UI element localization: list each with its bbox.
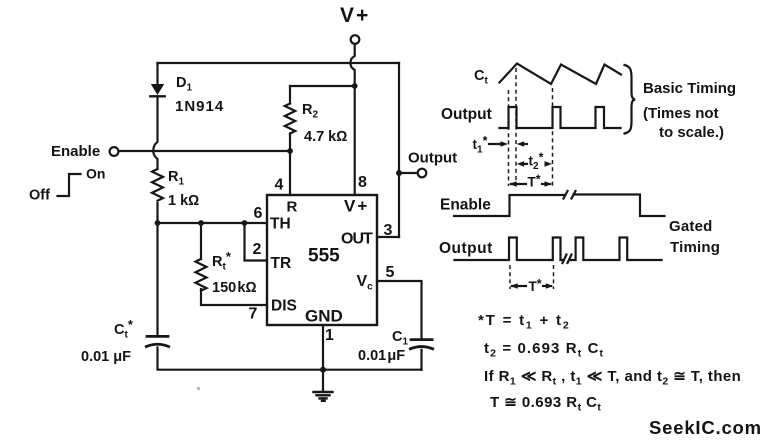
svg-text:555: 555 <box>308 246 340 267</box>
stray mark faint dot <box>197 387 200 390</box>
svg-text:Off: Off <box>29 188 50 204</box>
waveform enable break marks <box>564 191 568 199</box>
svg-text:TH: TH <box>270 216 291 233</box>
wire D1 upper lead <box>156 63 158 84</box>
svg-text:*T = t1 + t2: *T = t1 + t2 <box>478 312 570 332</box>
dimension T* line 2 <box>510 283 553 289</box>
V+ terminal circle <box>351 35 360 44</box>
svg-text:Output: Output <box>441 106 492 123</box>
wire R1 lower lead <box>156 203 158 223</box>
waveform Ct sawtooth <box>500 64 622 85</box>
svg-text:4.7 kΩ: 4.7 kΩ <box>304 129 347 145</box>
svg-text:6: 6 <box>254 205 263 222</box>
dashed marker line 1 <box>508 90 510 186</box>
capacitor Ct bottom plate <box>146 344 168 346</box>
svg-text:Gated: Gated <box>669 218 713 235</box>
svg-text:Timing: Timing <box>670 239 720 256</box>
capacitor C1 top plate <box>411 338 432 341</box>
junction dot ground node <box>320 367 326 373</box>
IC 555 body U1 <box>267 195 377 325</box>
waveform output gated right <box>571 238 662 261</box>
svg-text:3: 3 <box>384 222 393 239</box>
junction dot Rt tap <box>198 220 204 226</box>
junction dot V+ / R2 / pin8 <box>352 83 358 89</box>
wire D1 lower lead with hop over enable line <box>153 96 157 169</box>
svg-text:0.01 μF: 0.01 μF <box>81 349 131 365</box>
capacitor Ct top plate <box>147 335 168 338</box>
svg-text:Output: Output <box>439 240 493 257</box>
svg-text:OUT: OUT <box>341 231 373 248</box>
svg-text:GND: GND <box>305 307 343 326</box>
wire output stub <box>399 172 418 174</box>
wire R2 upper lead <box>289 86 291 104</box>
wire Ct lower lead to bottom rail <box>158 348 324 370</box>
svg-text:R: R <box>287 199 298 216</box>
svg-text:1 kΩ: 1 kΩ <box>168 193 199 209</box>
svg-text:1N914: 1N914 <box>175 98 224 115</box>
diode D1 triangle <box>151 84 164 95</box>
wire pin 5 Vc link <box>377 281 422 339</box>
resistor R2 <box>285 104 295 134</box>
wire Rt lower lead / DIS link <box>201 289 267 305</box>
Enable terminal circle <box>110 147 119 156</box>
resistor Rt <box>196 259 207 291</box>
wire bottom rail right <box>323 369 422 371</box>
wire enable line <box>119 150 290 152</box>
svg-text:Enable: Enable <box>51 143 100 160</box>
wire TR link <box>245 223 268 261</box>
svg-text:4: 4 <box>275 177 284 194</box>
wire C1 lower lead <box>420 350 422 370</box>
waveform enable right part <box>574 195 665 217</box>
svg-text:7: 7 <box>249 306 258 323</box>
junction dot output tap <box>396 170 402 176</box>
wire pin 4 vertical <box>289 151 291 195</box>
svg-text:If R1 ≪ Rt , t1 ≪ T, and t2 ≅: If R1 ≪ Rt , t1 ≪ T, and t2 ≅ T, then <box>484 368 741 388</box>
brace basic timing <box>625 65 636 134</box>
waveform output gated left <box>455 238 564 261</box>
svg-text:T ≅ 0.693 Rt Ct: T ≅ 0.693 Rt Ct <box>490 394 601 414</box>
dashed marker line T2 left <box>509 265 511 289</box>
svg-text:8: 8 <box>358 174 367 191</box>
resistor R1 <box>152 169 163 201</box>
wire V+ stem with hop over output rail <box>351 44 355 86</box>
svg-text:V+: V+ <box>340 4 370 27</box>
wire R2 top branch <box>290 85 355 87</box>
switch step symbol off/on <box>58 174 81 196</box>
svg-text:t2 = 0.693 Rt Ct: t2 = 0.693 Rt Ct <box>484 340 604 360</box>
svg-text:Output: Output <box>408 150 457 167</box>
svg-text:TR: TR <box>271 255 292 272</box>
dimension t1 arrows <box>489 141 527 147</box>
dashed marker line 3 <box>552 88 554 186</box>
wire right vertical OUT rail <box>398 63 400 237</box>
wire top rail D1 to OUT <box>158 62 400 64</box>
svg-text:to scale.): to scale.) <box>659 124 724 141</box>
wire pin 3 stub <box>377 236 399 238</box>
diode D1 cathode bar <box>150 95 164 97</box>
svg-text:0.01 μF: 0.01 μF <box>358 348 405 364</box>
svg-text:SeekIC.com: SeekIC.com <box>649 417 762 438</box>
wire TH rail <box>158 222 268 224</box>
svg-text:1: 1 <box>325 327 334 344</box>
wire R2 lower lead <box>289 134 291 152</box>
Output terminal circle <box>418 169 427 178</box>
dashed marker line 2 <box>515 68 517 186</box>
dimension T* line 1 <box>509 181 552 187</box>
svg-text:150 kΩ: 150 kΩ <box>212 280 257 296</box>
wire pin 8 vertical <box>354 86 356 195</box>
ground symbol <box>314 370 333 401</box>
junction dot R2 / enable line / pin4 <box>287 148 293 154</box>
svg-text:DIS: DIS <box>271 298 297 315</box>
junction dot TR tap <box>242 220 248 226</box>
waveform output break marks <box>563 255 567 264</box>
waveform enable gated <box>454 195 565 216</box>
svg-text:2: 2 <box>253 241 262 258</box>
waveform output basic timing <box>500 107 621 128</box>
svg-text:Basic Timing: Basic Timing <box>643 80 736 97</box>
svg-text:V+: V+ <box>344 197 369 216</box>
wire pin 1 vertical <box>322 325 324 370</box>
svg-text:5: 5 <box>386 264 395 281</box>
capacitor C1 bottom plate <box>410 347 432 349</box>
dashed marker line T2 right <box>553 265 555 289</box>
wire Rt upper lead <box>200 223 202 259</box>
svg-text:Enable: Enable <box>440 197 491 214</box>
junction dot R1 / TH rail <box>155 220 161 226</box>
wire left vertical to Ct <box>156 223 158 335</box>
svg-text:(Times not: (Times not <box>643 105 719 122</box>
svg-text:On: On <box>86 166 105 182</box>
dimension t2 arrows <box>517 161 552 167</box>
